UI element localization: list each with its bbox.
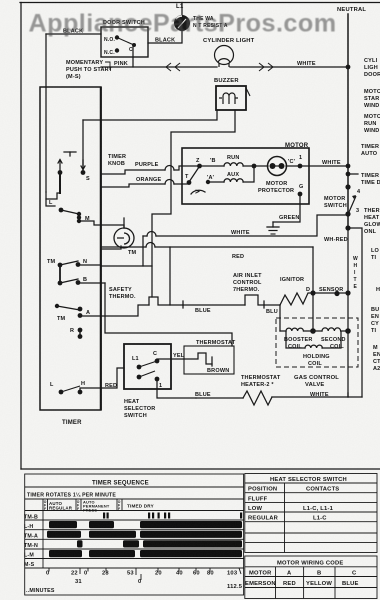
- node L1 upper: [137, 365, 142, 370]
- node T terminal: [187, 180, 192, 185]
- node junction white neutral: [346, 164, 351, 169]
- timing chart bars: [47, 513, 242, 558]
- switch arm motor switch: [349, 196, 356, 212]
- switch M-S cam symbol T: [64, 151, 76, 153]
- node terminal 1: [298, 164, 303, 169]
- switch arm L to M: [61, 210, 79, 214]
- wire A row feed to safety thermo: [101, 305, 149, 316]
- wire S contact riser to buzzer feed: [82, 120, 84, 171]
- thermostat internal step: [184, 353, 212, 364]
- wire sensor row: [313, 292, 348, 294]
- node neutral junction cylinder light: [346, 65, 351, 70]
- wire red drop x=170 to safety thermo: [169, 247, 171, 305]
- wire buzzer left feed y=120: [83, 110, 217, 120]
- wire B row drop to thermostat top: [105, 283, 232, 346]
- thermostat air inlet bump: [245, 295, 264, 305]
- switch arm L-H: [61, 386, 80, 392]
- wire blu to ignitor junction: [264, 304, 280, 306]
- wire L step from riser: [46, 192, 60, 199]
- wire N contact to bus: [78, 264, 101, 266]
- wire blue bottom run: [196, 397, 243, 399]
- valve gas control valve dashed box: [276, 318, 358, 367]
- wire M contact drop: [78, 214, 80, 221]
- thermostat safety thermo bump: [149, 297, 183, 305]
- wire right bus lower: [347, 228, 349, 397]
- wire green from G: [273, 196, 300, 222]
- switch arm L1-C: [139, 361, 157, 367]
- node motor switch bottom: [345, 211, 350, 216]
- thermostat THERMOSTAT box: [184, 346, 234, 374]
- wire motor main run y=166: [199, 165, 224, 167]
- node booster-second junction: [310, 328, 316, 334]
- wire red run y=247: [101, 246, 146, 248]
- wire B contact exits to thermostat feed: [78, 282, 105, 284]
- switch arm TM-B: [60, 279, 78, 283]
- wire neutral row y=266: [101, 265, 152, 267]
- junction pink wire arrows left: [166, 63, 273, 71]
- wire heavy bus overlay on timer box right edge: [100, 87, 102, 410]
- switch arm TM-N: [60, 261, 78, 265]
- resistor thermostat heater-2 zigzag: [243, 391, 272, 405]
- node wh-red junction: [345, 225, 350, 230]
- left border line: [20, 3, 22, 470]
- wire purple S to motor Z: [101, 170, 165, 174]
- scale ticks below chart: [49, 568, 241, 580]
- wire cylinder light to neutral bus: [230, 66, 348, 68]
- wire neutral bus: [347, 14, 349, 228]
- resistor ignitor zigzag: [280, 293, 313, 305]
- wire white bottom run: [272, 396, 362, 398]
- wire white left drop to neutral row: [142, 236, 144, 266]
- node TM upper contact: [58, 263, 63, 268]
- inductor RUN winding: [224, 163, 243, 166]
- wire bottom to right bus: [347, 393, 349, 397]
- wire pink drop from door switch C: [132, 47, 134, 67]
- node N.C. contact: [115, 48, 119, 52]
- ticks TM-B: [103, 513, 105, 519]
- wire yel C to thermostat: [157, 359, 171, 361]
- node second coil bus junction: [345, 328, 351, 334]
- wire L1 drop from top border: [181, 3, 183, 16]
- switch M-S down arrow: [82, 160, 84, 169]
- buzzer U buzzer: [214, 78, 250, 110]
- node A contacts: [78, 307, 83, 312]
- node A terminal: [206, 180, 210, 184]
- node N.O. contact: [115, 35, 119, 39]
- switch arm door switch: [117, 38, 134, 46]
- motor MOTOR box: [182, 148, 309, 204]
- node motor switch top: [345, 184, 350, 189]
- wire callout bracket to timer box: [105, 62, 110, 70]
- node L1 terminal ball: [174, 4, 228, 31]
- wire TM N-B ladder: [59, 265, 61, 283]
- node TM lower contact: [58, 281, 63, 286]
- wire protector to terminal 1: [286, 165, 300, 167]
- switch heat selector switch box: [124, 344, 171, 389]
- switch arm L1-1: [139, 371, 155, 377]
- junction pink wire arrows right: [259, 63, 264, 71]
- node H contact: [78, 390, 83, 395]
- node sensor right on bus: [345, 290, 350, 295]
- switch arm TM-A: [57, 306, 80, 310]
- inductor booster coil: [286, 328, 303, 331]
- switch motor switch: [324, 184, 361, 230]
- wire terminal 1 to neutral bus WHITE: [300, 165, 348, 167]
- wire buzzer right to mid riser: [152, 110, 235, 297]
- node G terminal: [298, 192, 303, 197]
- bars TM-A: [47, 531, 81, 538]
- wire timer motor top stub: [123, 218, 125, 228]
- node C selector: [155, 359, 160, 364]
- bars L-M: [49, 550, 82, 557]
- schematic bottom border: [21, 468, 380, 470]
- wire red from H to heat selector: [80, 368, 124, 392]
- node S left contact: [58, 170, 63, 175]
- wire ignitor junction drop to booster: [279, 305, 281, 331]
- timer TIMER box: [40, 87, 101, 410]
- motor TM timer motor: [114, 228, 134, 248]
- node L contact: [59, 208, 64, 213]
- wire holding coil branch: [286, 332, 305, 348]
- wire aux branch: [208, 181, 224, 183]
- node run-aux junction: [252, 164, 257, 169]
- node D junction: [310, 290, 315, 295]
- ground symbol: [272, 222, 274, 227]
- node B contact: [76, 280, 81, 285]
- node S contact: [81, 170, 86, 175]
- wire L1 circle to door switch: [148, 31, 182, 43]
- wire S dot heavy drop: [59, 174, 61, 193]
- switch centrifugal arc: [191, 190, 205, 194]
- breaker motor protector: [268, 157, 287, 176]
- wire M to timer motor: [79, 221, 124, 228]
- node TM-A pivot: [55, 304, 59, 308]
- wire red drop x=313 to ignitor D: [312, 247, 314, 330]
- node L1 lower: [137, 375, 142, 380]
- node N contact: [76, 262, 81, 267]
- table timer sequence: [25, 474, 244, 595]
- wire 1 to blue bottom run: [157, 379, 196, 398]
- node junction timer wire: [346, 172, 351, 177]
- wire brown arm: [211, 357, 213, 366]
- bars L-H: [49, 521, 77, 528]
- bars TM-N: [77, 540, 83, 547]
- wire orange to motor T: [101, 184, 165, 187]
- wire white run y=236: [143, 235, 147, 237]
- node L bottom contact: [59, 390, 64, 395]
- node 1 selector: [155, 377, 160, 382]
- right margin cut labels: [361, 58, 380, 372]
- wire blue run to air inlet thermo: [182, 301, 184, 308]
- inductor holding coil: [305, 345, 322, 348]
- lamp cylinder light: [215, 46, 234, 68]
- table motor wiring code: [245, 556, 377, 599]
- wire black from left riser to door switch: [46, 33, 101, 35]
- inductor second coil: [322, 328, 341, 331]
- switch door switch: [101, 20, 148, 57]
- wire timer-time stub right: [348, 173, 358, 175]
- node sensor left: [334, 291, 339, 296]
- wire A contact exits: [80, 315, 101, 317]
- switch arm motor start T-Z: [189, 167, 199, 182]
- wire left riser x=46 down into timer: [45, 34, 47, 192]
- inductor AUX winding: [224, 179, 243, 182]
- top border line: [20, 2, 380, 4]
- node R contacts: [78, 328, 83, 333]
- table heat selector switch: [245, 474, 377, 553]
- wire wh-red over to outer riser: [348, 228, 362, 397]
- node C contact: [132, 43, 136, 47]
- node M contacts: [77, 212, 81, 216]
- wire pink/neutral run y=67: [101, 66, 217, 68]
- wire timer motor feed: [101, 246, 121, 249]
- node Z terminal: [197, 164, 202, 169]
- switch M-S up arrow: [59, 160, 61, 171]
